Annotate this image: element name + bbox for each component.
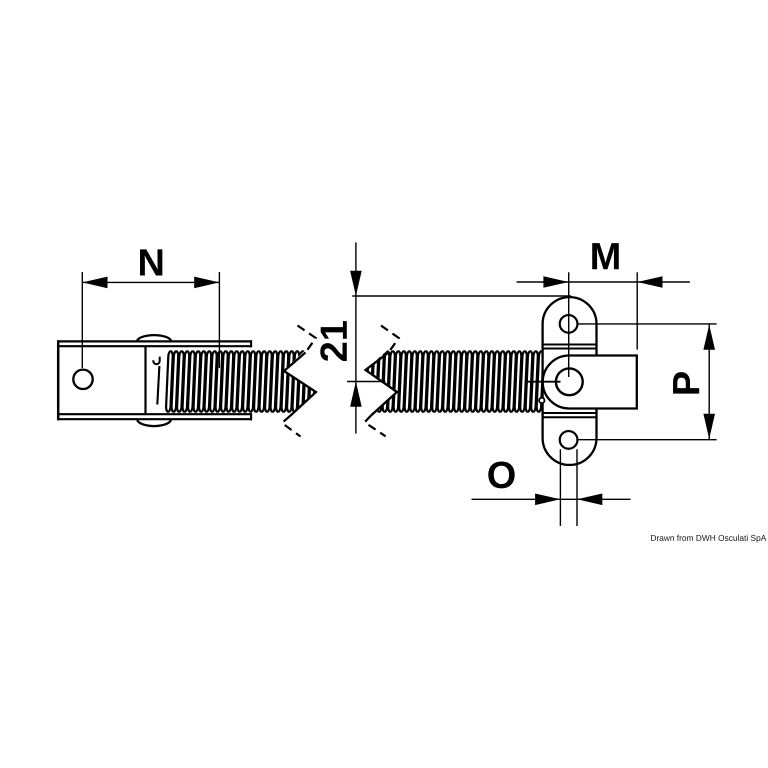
dimension 21 center line bbox=[347, 381, 386, 383]
label O bbox=[488, 461, 514, 488]
dimension O extension lines bbox=[560, 449, 577, 526]
dimension M line bbox=[517, 281, 690, 283]
label P bbox=[673, 372, 699, 394]
dimension P line bbox=[708, 324, 710, 440]
left bracket plate divider bbox=[144, 346, 146, 414]
plate top hole bbox=[560, 315, 578, 333]
dimension P extension lines bbox=[578, 324, 717, 440]
break zigzag left solid bbox=[284, 353, 316, 417]
label N bbox=[140, 249, 162, 275]
break zigzag right bottom dash bbox=[365, 416, 386, 437]
plate bottom hole bbox=[560, 431, 578, 449]
label M bbox=[592, 243, 619, 269]
spring wire end bbox=[157, 366, 159, 405]
dimension N extension lines bbox=[82, 272, 219, 368]
spring wire nub bbox=[539, 398, 544, 403]
spring bottom dome bbox=[137, 419, 171, 426]
dimension N arrow left bbox=[82, 277, 107, 289]
left bracket hole bbox=[73, 370, 92, 389]
dimension P arrow down bbox=[703, 414, 715, 439]
left spring coils bbox=[166, 351, 322, 411]
right spring coils bbox=[360, 351, 543, 411]
barrel block bbox=[543, 356, 637, 409]
dimension N line bbox=[82, 281, 219, 283]
dimension P arrow up bbox=[703, 325, 715, 350]
break zigzag left top dash bbox=[298, 326, 316, 353]
footer credit text bbox=[651, 535, 766, 543]
dimension 21 vertical line bbox=[355, 242, 357, 433]
left bracket top rail bbox=[57, 341, 252, 419]
left bracket left face bbox=[57, 340, 60, 420]
dimension M arrow right bbox=[637, 276, 662, 288]
dimension M extension lines bbox=[569, 272, 638, 377]
spring hook bbox=[153, 357, 159, 365]
dimension 21 top tick bbox=[352, 295, 571, 297]
right plate bbox=[543, 297, 597, 465]
spring top dome bbox=[137, 335, 171, 341]
break zigzag right solid bbox=[366, 353, 398, 416]
dimension M arrow left bbox=[543, 276, 568, 288]
dimension 21 arrow down bbox=[350, 271, 362, 296]
label 21 bbox=[320, 321, 347, 361]
dimension O arrow left bbox=[535, 494, 560, 506]
break gap erase left bbox=[283, 344, 340, 419]
dimension 21 arrow up bbox=[350, 382, 362, 407]
spring end line into barrel bbox=[526, 381, 561, 383]
break zigzag right top dash bbox=[381, 326, 399, 353]
dimension O line bbox=[472, 498, 631, 500]
dimension O arrow right bbox=[577, 494, 602, 506]
right plate chord lines bbox=[543, 345, 597, 418]
break zigzag left bottom dash bbox=[282, 416, 301, 437]
dimension N arrow right bbox=[194, 277, 219, 289]
break gap erase right bbox=[339, 344, 397, 419]
left bracket rail end caps bbox=[250, 340, 252, 420]
barrel hole bbox=[556, 368, 583, 395]
